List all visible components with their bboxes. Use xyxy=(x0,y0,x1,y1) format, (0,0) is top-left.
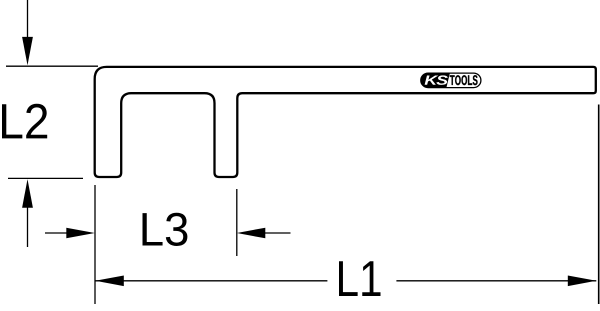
L3 label xyxy=(143,213,188,246)
L2 upper arrowhead xyxy=(22,37,33,65)
tool body outline xyxy=(95,67,596,177)
L1 dimension line right segment xyxy=(396,280,596,282)
L2 dimension line lower tail xyxy=(27,207,29,248)
L1 right arrowhead xyxy=(568,276,597,287)
L1 label xyxy=(339,261,381,296)
L2 top extension line xyxy=(6,65,98,67)
L3 left tail line xyxy=(45,232,67,234)
KS Tools logo left black field xyxy=(421,73,450,88)
L3 right tail line xyxy=(265,232,291,234)
KS Tools logo outer stadium xyxy=(421,73,481,88)
L3 left arrowhead xyxy=(66,228,95,239)
KS Tools logo TOOLS lettering xyxy=(450,75,478,85)
L3 right extension line xyxy=(236,189,238,256)
L2 dimension line upper tail xyxy=(27,0,29,38)
L3 right arrowhead xyxy=(237,228,265,239)
left vertical extension line xyxy=(94,185,96,304)
KS Tools logo KS lettering xyxy=(425,75,448,85)
L2 label xyxy=(2,104,47,139)
L1 dimension line left segment xyxy=(95,280,327,282)
right vertical extension line xyxy=(598,105,600,305)
L2 bottom extension line xyxy=(8,177,83,179)
L2 lower arrowhead xyxy=(22,179,33,207)
L1 left arrowhead xyxy=(95,276,124,287)
